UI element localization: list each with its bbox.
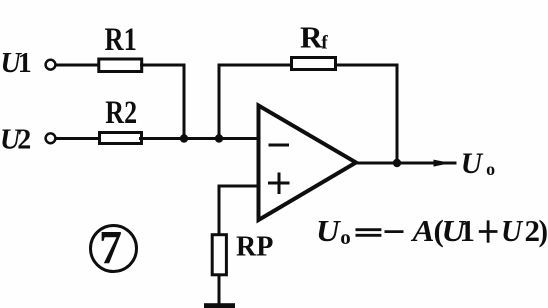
resistor Rf: [292, 58, 336, 70]
op-amp inverting input symbol (minus): [269, 144, 290, 147]
wire R2 to op-amp inverting input: [141, 137, 260, 140]
svg-text:7: 7: [99, 222, 122, 275]
junction node at x=219 (feedback joins summing line): [215, 134, 223, 142]
wire U1 terminal to R1: [57, 64, 99, 67]
svg-text:U2: U2: [0, 125, 31, 156]
formula equals sign: [356, 228, 382, 231]
wire Rf to output node (right side, down at x=397): [336, 65, 398, 161]
junction node output/feedback: [393, 159, 401, 167]
wire feedback left branch (up from summing node to Rf): [219, 65, 291, 139]
svg-text:RP: RP: [236, 232, 273, 263]
wire op-amp non-inverting input to RP: [219, 186, 259, 234]
resistor RP: [212, 235, 226, 275]
wire op-amp output: [357, 162, 455, 165]
figure number 7 (circled): [91, 226, 137, 272]
arrowhead on output wire: [434, 160, 451, 167]
ground: [204, 303, 235, 308]
formula minus sign: [385, 230, 404, 233]
svg-text:U: U: [316, 213, 341, 248]
formula plus sign: [479, 230, 498, 233]
wire R1 to inverting node (down at x=184): [142, 65, 185, 139]
terminal U1: [46, 60, 56, 70]
wire U2 terminal to R2: [57, 137, 100, 140]
formula Uo = -A(U1+U2): [316, 213, 548, 249]
svg-text:o: o: [340, 225, 351, 249]
svg-text:U: U: [501, 213, 524, 248]
op-amp A1 triangle: [259, 106, 357, 221]
svg-text:): ): [539, 213, 548, 248]
svg-text:A: A: [410, 213, 434, 248]
wire RP to ground: [218, 275, 221, 304]
svg-text:R1: R1: [105, 22, 137, 58]
op-amp non-inverting input symbol (plus): [268, 182, 290, 185]
svg-text:U1: U1: [1, 48, 32, 79]
resistor R2: [100, 133, 142, 144]
junction node at x=184 (R1 joins summing line): [180, 134, 188, 142]
resistor R1: [99, 59, 142, 72]
svg-text:1: 1: [460, 213, 476, 248]
terminal U2: [46, 133, 56, 143]
svg-text:R2: R2: [105, 95, 137, 131]
